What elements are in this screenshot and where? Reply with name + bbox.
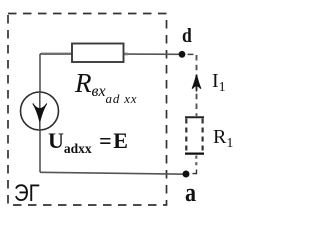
label R1 (213, 126, 233, 149)
resistor R_vx left lead (41, 53, 72, 55)
resistor R_vx body (72, 44, 124, 63)
corner into node a (193, 170, 197, 174)
current arrow I1 (points up) (192, 75, 201, 89)
label U_adxx = E (48, 128, 128, 153)
resistor R1 right edge dashed (202, 119, 204, 153)
label node d (182, 25, 192, 48)
wire bottom horizontal (40, 172, 186, 174)
source U_adxx circle (21, 92, 59, 130)
resistor R1 left edge dashed (185, 119, 187, 153)
wire left vertical (39, 54, 41, 173)
node a dot (183, 171, 190, 178)
resistor R1 top edge (185, 116, 204, 118)
node d dot (179, 51, 186, 58)
resistor R_vx right lead stub (123, 53, 128, 56)
label I1 (212, 70, 226, 93)
wire top horizontal (40, 53, 182, 56)
dashed branch wire R1 to node a (195, 156, 197, 168)
dashed stub from node d (188, 53, 197, 55)
resistor R1 bottom edge (185, 152, 204, 154)
equivalent generator boundary (dashed box ЭГ) (8, 14, 167, 206)
dashed branch wire d to R1 (196, 55, 198, 116)
label ЭГ (14, 180, 40, 208)
wire through source (39, 92, 41, 130)
label R_вх ad xx (75, 68, 137, 99)
label node a (185, 178, 196, 208)
source arrow (points down) (33, 104, 47, 122)
current arrow I1 shaft stub (196, 86, 198, 92)
